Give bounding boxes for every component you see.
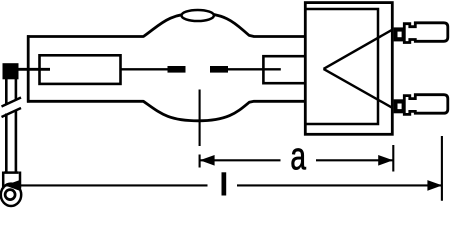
- dimension l line left segment: [6, 184, 208, 186]
- electrode bar right: [210, 66, 228, 73]
- inner frame in left stem: [40, 55, 121, 84]
- cable lug right side: [19, 172, 22, 189]
- outer envelope left end: [27, 35, 30, 102]
- flexible cable right line upper segment: [15, 79, 18, 100]
- dimension a line right segment: [316, 159, 393, 161]
- dimension a line left segment: [200, 159, 280, 161]
- igniter triangle top line: [324, 30, 393, 69]
- top pin stub white center: [398, 32, 402, 38]
- dimension l right arrowhead: [427, 180, 442, 191]
- dimension label l: [222, 172, 227, 195]
- flexible cable left line lower segment: [5, 114, 8, 174]
- flexible cable right line lower segment: [15, 111, 18, 174]
- bottom cable connector outline: [404, 95, 448, 115]
- top pin stub: [394, 27, 405, 41]
- dimension l right extension line: [441, 136, 443, 201]
- flexible cable left line upper segment: [5, 79, 8, 104]
- top cable connector outline: [404, 23, 448, 43]
- lead-in wire left: [18, 68, 50, 71]
- dimension a centre extension line upper segment: [199, 90, 201, 147]
- electrode bar left: [168, 66, 186, 73]
- bottom pin stub white center: [398, 104, 402, 110]
- dimension a right extension line: [392, 145, 394, 172]
- cable lug hole: [5, 190, 15, 200]
- dimension a centre extension line lower segment: [199, 155, 201, 168]
- cable lug ring outer: [1, 184, 21, 206]
- base outer body: [305, 3, 392, 135]
- bottom pin stub: [394, 99, 405, 113]
- cable lug left side: [2, 172, 5, 189]
- envelope top edge with bulb dome: [27, 13, 306, 36]
- electrode holder frame right stem: [263, 56, 306, 83]
- cable break slash lower: [2, 108, 22, 117]
- dimension a right arrowhead: [378, 155, 393, 166]
- dimension l line right segment: [237, 184, 441, 186]
- exhaust pip ellipse on bulb top: [182, 10, 214, 21]
- envelope bottom edge with bulb dome: [27, 101, 306, 121]
- cable entry sleeve (black square): [3, 63, 19, 79]
- igniter triangle bottom line: [324, 69, 393, 108]
- cable lug top bar: [4, 171, 19, 174]
- dimension a left arrowhead: [200, 155, 215, 166]
- base inner frame: [306, 9, 378, 124]
- electrode lead wire left of arc: [121, 68, 168, 70]
- electrode lead wire right of arc: [228, 68, 281, 70]
- dimension l left arrowhead: [5, 180, 20, 191]
- dimension label a: [292, 148, 306, 169]
- cable break slash upper: [2, 98, 22, 107]
